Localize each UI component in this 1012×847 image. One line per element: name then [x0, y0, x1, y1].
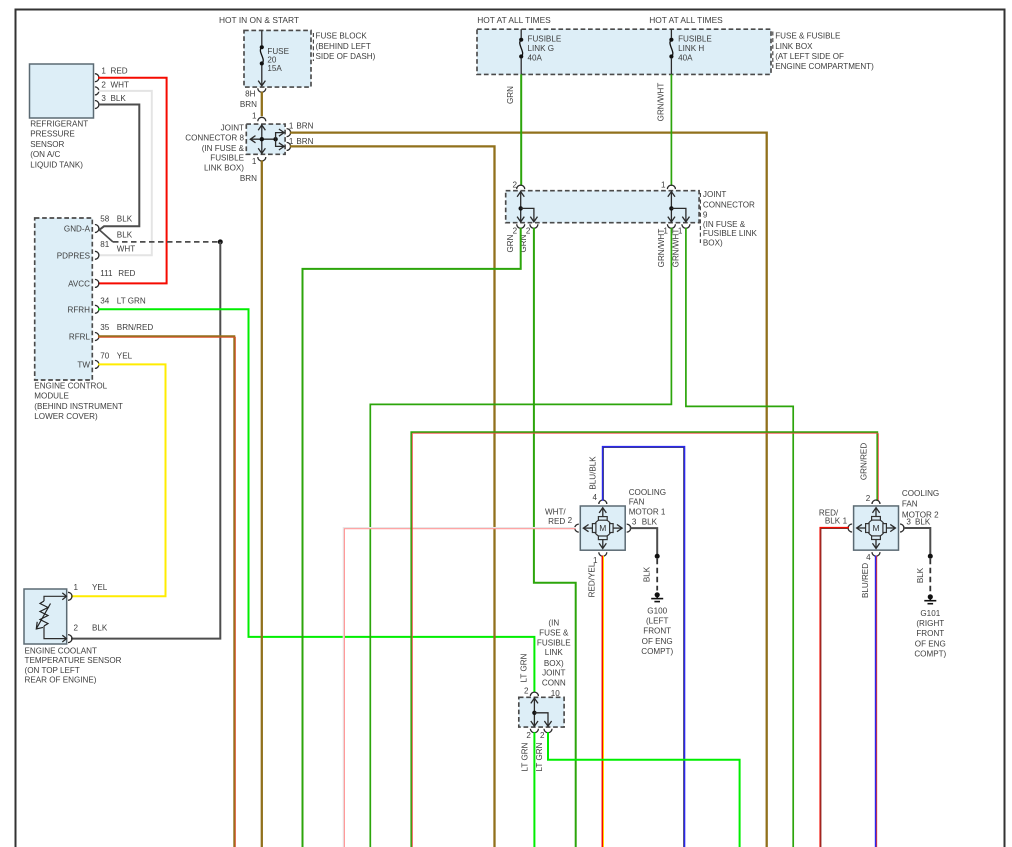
svg-text:LOWER COVER): LOWER COVER)	[34, 412, 98, 421]
motor2 pin 3 BLK label	[906, 517, 930, 526]
svg-text:LINK H: LINK H	[678, 44, 704, 53]
svg-text:RED: RED	[548, 517, 565, 526]
svg-text:1: 1	[101, 67, 106, 76]
wire LT GRN JC10 left to bottom	[533, 732, 535, 847]
svg-text:FUSE & FUSIBLE: FUSE & FUSIBLE	[775, 32, 841, 41]
fusible link H 40A	[669, 29, 712, 74]
wire GRN/RED to motor2 pin2	[411, 432, 878, 847]
wire BLK sensor pin3 to ECM GND-A	[98, 105, 139, 231]
wire BLK dashed to G101	[929, 559, 931, 593]
motor2 pin 1 RED/BLK label	[819, 508, 848, 525]
fuse block callout label	[313, 32, 375, 61]
svg-text:1: 1	[289, 137, 294, 146]
svg-text:2: 2	[526, 731, 531, 740]
svg-text:2: 2	[74, 624, 79, 633]
wire GRN JC9 to bottom left	[303, 228, 521, 847]
svg-text:BLK: BLK	[111, 94, 127, 103]
fuse 20 15A	[258, 30, 289, 85]
joint connector 8 (box)	[246, 124, 290, 154]
svg-text:1: 1	[252, 112, 257, 121]
svg-text:BLK: BLK	[643, 566, 652, 582]
svg-text:1: 1	[661, 181, 666, 190]
svg-text:REFRIGERANT: REFRIGERANT	[30, 120, 88, 129]
svg-text:OF ENG: OF ENG	[915, 639, 946, 648]
svg-text:LT GRN: LT GRN	[520, 653, 529, 682]
ground G101	[928, 594, 933, 599]
svg-text:2: 2	[513, 227, 518, 236]
svg-text:AVCC: AVCC	[68, 279, 90, 288]
joint connector 9 (box)	[506, 191, 699, 223]
wire BLU/RED motor2 pin4 to bottom	[876, 556, 877, 847]
pin 34 LT GRN label	[100, 297, 146, 306]
labels GRN/WHT rotated below JC9	[657, 229, 681, 268]
svg-text:COMPT): COMPT)	[914, 650, 946, 659]
svg-text:2: 2	[524, 686, 529, 695]
wire BLK motor2 pin3 to ground	[903, 528, 930, 554]
svg-text:(ON A/C: (ON A/C	[30, 150, 60, 159]
svg-text:BRN: BRN	[296, 122, 313, 131]
svg-text:35: 35	[100, 323, 110, 332]
refrigerant pressure sensor (box)	[30, 64, 99, 169]
pin 111 RED label	[100, 269, 135, 278]
svg-text:FAN: FAN	[902, 500, 918, 509]
svg-text:BRN: BRN	[240, 174, 257, 183]
svg-text:1: 1	[252, 157, 257, 166]
svg-text:LT GRN: LT GRN	[521, 742, 530, 771]
svg-text:1: 1	[843, 517, 848, 526]
ground G100	[655, 592, 660, 597]
wire BLU/BLK motor1 pin4 to bottom	[603, 447, 685, 847]
svg-text:RED/YEL: RED/YEL	[588, 562, 597, 597]
svg-text:(LEFT: (LEFT	[646, 617, 669, 626]
wire BLK dashed from GND-A to junction	[99, 230, 220, 243]
svg-text:G100: G100	[647, 606, 667, 615]
pin 58 BLK label	[100, 214, 132, 223]
svg-text:GRN/WHT: GRN/WHT	[657, 229, 666, 268]
fusible link G 40A	[519, 29, 562, 74]
svg-text:HOT IN ON & START: HOT IN ON & START	[219, 15, 299, 25]
svg-text:FRONT: FRONT	[916, 629, 944, 638]
wire BRN/RED ECM RFRL to bottom	[98, 336, 235, 847]
svg-text:SENSOR: SENSOR	[30, 140, 64, 149]
connector pin 1 top of JC9	[661, 181, 675, 190]
svg-text:COMPT): COMPT)	[641, 647, 673, 656]
svg-text:ENGINE CONTROL: ENGINE CONTROL	[34, 382, 107, 391]
connector pins 1 bottom of JC9	[663, 224, 690, 235]
svg-text:(AT LEFT SIDE OF: (AT LEFT SIDE OF	[775, 52, 844, 61]
wire BLK junction down to coolant sensor pin2	[71, 242, 220, 639]
svg-text:CONNECTOR 8: CONNECTOR 8	[185, 134, 244, 143]
wire GRN link G to JC9	[520, 74, 522, 185]
cooling fan motor 2 (box)	[848, 500, 904, 556]
svg-text:BRN/RED: BRN/RED	[117, 323, 154, 332]
svg-text:FUSIBLE LINK: FUSIBLE LINK	[703, 229, 758, 238]
svg-text:ENGINE COMPARTMENT): ENGINE COMPARTMENT)	[775, 62, 874, 71]
pin 1 BRN label upper	[289, 122, 314, 131]
svg-text:1: 1	[289, 122, 294, 131]
joint connector 8 label	[185, 123, 244, 172]
svg-text:JOINT: JOINT	[542, 668, 565, 677]
svg-text:2: 2	[540, 731, 545, 740]
svg-text:(RIGHT: (RIGHT	[916, 619, 944, 628]
svg-text:G101: G101	[920, 609, 940, 618]
motor1 pin 2 WHT/RED label	[545, 508, 573, 527]
connector pins 2 bottom of JC10	[526, 729, 552, 740]
ground G100 label	[641, 606, 673, 656]
wire BRN fuse to joint connector 8	[261, 92, 263, 117]
svg-text:FUSE BLOCK: FUSE BLOCK	[316, 32, 368, 41]
pin 3 BLK label	[101, 94, 126, 103]
cooling fan motor 1 (box)	[575, 500, 631, 556]
svg-text:GRN: GRN	[506, 234, 515, 252]
junction dot motor1 ground wire	[655, 554, 660, 559]
svg-text:TW: TW	[77, 360, 90, 369]
svg-text:YEL: YEL	[92, 583, 108, 592]
pin 81 WHT label	[100, 230, 135, 253]
svg-text:GRN: GRN	[506, 86, 515, 104]
svg-text:(IN: (IN	[548, 619, 559, 628]
junction dot motor2 ground wire	[928, 554, 933, 559]
svg-text:RFRL: RFRL	[69, 333, 91, 342]
labels GRN rotated below JC9	[506, 234, 528, 252]
pin 35 BRN/RED label	[100, 323, 153, 332]
svg-text:JOINT: JOINT	[221, 123, 244, 132]
svg-text:(IN FUSE &: (IN FUSE &	[202, 144, 245, 153]
svg-text:BLK: BLK	[117, 230, 133, 239]
svg-text:WHT: WHT	[117, 244, 135, 253]
svg-text:70: 70	[100, 351, 110, 360]
svg-text:40A: 40A	[528, 53, 543, 62]
svg-text:(ON TOP LEFT: (ON TOP LEFT	[25, 666, 80, 675]
connector 8H	[245, 88, 266, 98]
svg-text:9: 9	[703, 211, 708, 220]
wire GRN JC9 second to bottom	[534, 228, 576, 847]
svg-text:LIQUID TANK): LIQUID TANK)	[30, 160, 83, 169]
svg-text:M: M	[873, 523, 880, 533]
svg-text:2: 2	[526, 227, 531, 236]
svg-text:BLK: BLK	[915, 517, 931, 526]
svg-text:LINK: LINK	[545, 648, 564, 657]
coolant sensor pin 1 label	[74, 583, 108, 592]
connector pin 2 top of JC10	[524, 686, 538, 696]
svg-text:RED: RED	[118, 269, 135, 278]
wire BLK dashed to G100	[656, 559, 658, 591]
connector pin 1 top of JC8	[252, 112, 266, 122]
svg-text:34: 34	[100, 297, 110, 306]
cooling fan motor 2 label	[902, 489, 939, 519]
svg-text:YEL: YEL	[117, 351, 133, 360]
svg-text:LINK BOX: LINK BOX	[775, 42, 813, 51]
pin 1 RED label	[101, 67, 127, 76]
svg-text:BRN: BRN	[296, 137, 313, 146]
wire WHT/RED to motor1 pin2	[343, 528, 575, 847]
svg-text:(IN FUSE &: (IN FUSE &	[703, 220, 746, 229]
svg-text:HOT AT ALL TIMES: HOT AT ALL TIMES	[649, 15, 723, 25]
wire WHT sensor pin2 to ECM PDPRES	[98, 91, 152, 255]
svg-text:RFRH: RFRH	[68, 305, 91, 314]
wire BLK motor1 pin3 to ground	[630, 528, 658, 554]
svg-text:REAR OF ENGINE): REAR OF ENGINE)	[25, 675, 97, 684]
svg-text:COOLING: COOLING	[902, 489, 939, 498]
joint connector 10 callout label	[537, 619, 571, 699]
fuse & fusible link box	[477, 29, 771, 74]
svg-text:FUSE &: FUSE &	[539, 628, 569, 637]
svg-text:15A: 15A	[267, 64, 282, 73]
wire BRN JC8 right upper to bottom right	[290, 133, 767, 847]
svg-text:BOX): BOX)	[544, 659, 564, 668]
svg-text:FUSIBLE: FUSIBLE	[537, 639, 571, 648]
pin 2 WHT label	[101, 80, 129, 89]
svg-text:CONN: CONN	[542, 679, 566, 688]
connector pin 1 bottom of JC8	[252, 157, 266, 166]
svg-text:WHT/: WHT/	[545, 508, 566, 517]
wire LT GRN ECM RFRH to joint connector 10	[98, 309, 534, 692]
cooling fan motor 1 label	[629, 488, 666, 517]
svg-text:4: 4	[866, 553, 871, 562]
wire BRN JC8 right lower to bottom middle	[290, 146, 495, 847]
svg-text:TEMPERATURE SENSOR: TEMPERATURE SENSOR	[25, 656, 122, 665]
wire YEL ECM TW to coolant sensor pin1	[71, 364, 166, 596]
engine coolant temperature sensor (box)	[24, 589, 122, 684]
wire RED sensor pin1 to ECM AVCC	[98, 78, 167, 284]
joint connector 10 (box)	[519, 697, 564, 727]
svg-text:PRESSURE: PRESSURE	[30, 130, 75, 139]
svg-text:3: 3	[101, 94, 106, 103]
svg-text:M: M	[599, 523, 606, 533]
svg-text:8H: 8H	[245, 90, 256, 99]
svg-text:40A: 40A	[678, 53, 693, 62]
svg-text:SIDE OF DASH): SIDE OF DASH)	[316, 52, 376, 61]
wire GRN/WHT JC9 to bottom left	[370, 228, 671, 847]
svg-text:HOT AT ALL TIMES: HOT AT ALL TIMES	[477, 15, 551, 25]
svg-text:COOLING: COOLING	[629, 488, 666, 497]
svg-text:BLK: BLK	[916, 567, 925, 583]
joint connector 9 label	[700, 190, 757, 247]
coolant sensor pin 2 label	[74, 624, 108, 633]
svg-text:2: 2	[568, 516, 573, 525]
svg-text:OF ENG: OF ENG	[642, 637, 673, 646]
svg-text:2: 2	[512, 181, 517, 190]
svg-text:FUSIBLE: FUSIBLE	[678, 35, 712, 44]
wire RED/YEL motor1 pin1 to bottom	[602, 556, 603, 847]
svg-text:1: 1	[74, 583, 79, 592]
svg-text:BLU/BLK: BLU/BLK	[588, 456, 597, 490]
svg-text:FRONT: FRONT	[643, 627, 671, 636]
svg-text:GRN/RED: GRN/RED	[860, 443, 869, 480]
engine control module (box)	[34, 218, 123, 421]
junction node GND wire	[218, 239, 223, 244]
svg-text:81: 81	[100, 240, 110, 249]
svg-text:WHT: WHT	[111, 80, 129, 89]
svg-text:2: 2	[866, 494, 871, 503]
svg-text:FAN: FAN	[629, 497, 645, 506]
svg-text:LINK BOX): LINK BOX)	[204, 164, 244, 173]
svg-text:111: 111	[100, 269, 113, 278]
fuse block (box)	[244, 30, 311, 87]
wire RED/BLK to motor2 pin1	[820, 528, 849, 847]
svg-text:PDPRES: PDPRES	[57, 251, 91, 260]
wire BRN JC8 down to bottom	[261, 160, 263, 847]
svg-text:MODULE: MODULE	[34, 392, 69, 401]
svg-text:BOX): BOX)	[703, 239, 723, 248]
svg-text:LINK G: LINK G	[528, 44, 555, 53]
fusible link box callout label	[773, 32, 874, 72]
svg-text:FUSIBLE: FUSIBLE	[528, 35, 562, 44]
connector pin 2 top of JC9	[512, 181, 524, 190]
svg-text:JOINT: JOINT	[703, 190, 726, 199]
svg-text:BLK: BLK	[92, 624, 108, 633]
svg-text:BLK: BLK	[825, 517, 841, 526]
svg-text:(BEHIND LEFT: (BEHIND LEFT	[316, 42, 371, 51]
svg-text:GRN/WHT: GRN/WHT	[671, 229, 680, 268]
svg-text:ENGINE COOLANT: ENGINE COOLANT	[25, 647, 97, 656]
pin 1 BRN label lower	[289, 137, 314, 146]
wire GRN/WHT link H to JC9	[670, 74, 672, 185]
svg-text:BLK: BLK	[117, 214, 133, 223]
svg-text:4: 4	[592, 493, 597, 502]
connector pins 2 bottom of JC9	[513, 224, 538, 235]
svg-text:MOTOR 1: MOTOR 1	[629, 507, 666, 516]
svg-text:BLK: BLK	[642, 517, 658, 526]
ground G101 label	[914, 609, 946, 659]
svg-text:BRN: BRN	[240, 100, 257, 109]
svg-text:RED: RED	[111, 67, 128, 76]
svg-text:GRN/WHT: GRN/WHT	[657, 83, 666, 122]
wire GRN/WHT JC9 second to bottom right	[686, 228, 793, 847]
svg-text:3: 3	[906, 517, 911, 526]
svg-text:2: 2	[101, 80, 106, 89]
svg-text:58: 58	[100, 214, 110, 223]
wire LT GRN JC10 right to bottom	[548, 732, 740, 847]
svg-text:LT GRN: LT GRN	[535, 742, 544, 771]
svg-text:3: 3	[632, 517, 637, 526]
labels LT GRN rotated below JC10	[521, 742, 544, 771]
motor1 pin 3 BLK label	[632, 517, 658, 526]
svg-text:GND-A: GND-A	[64, 225, 91, 234]
svg-text:BLU/RED: BLU/RED	[861, 563, 870, 598]
svg-text:(BEHIND INSTRUMENT: (BEHIND INSTRUMENT	[34, 402, 123, 411]
svg-text:FUSIBLE: FUSIBLE	[210, 153, 244, 162]
svg-text:LT GRN: LT GRN	[117, 297, 146, 306]
pin 70 YEL label	[100, 351, 132, 360]
svg-text:CONNECTOR: CONNECTOR	[703, 200, 755, 209]
